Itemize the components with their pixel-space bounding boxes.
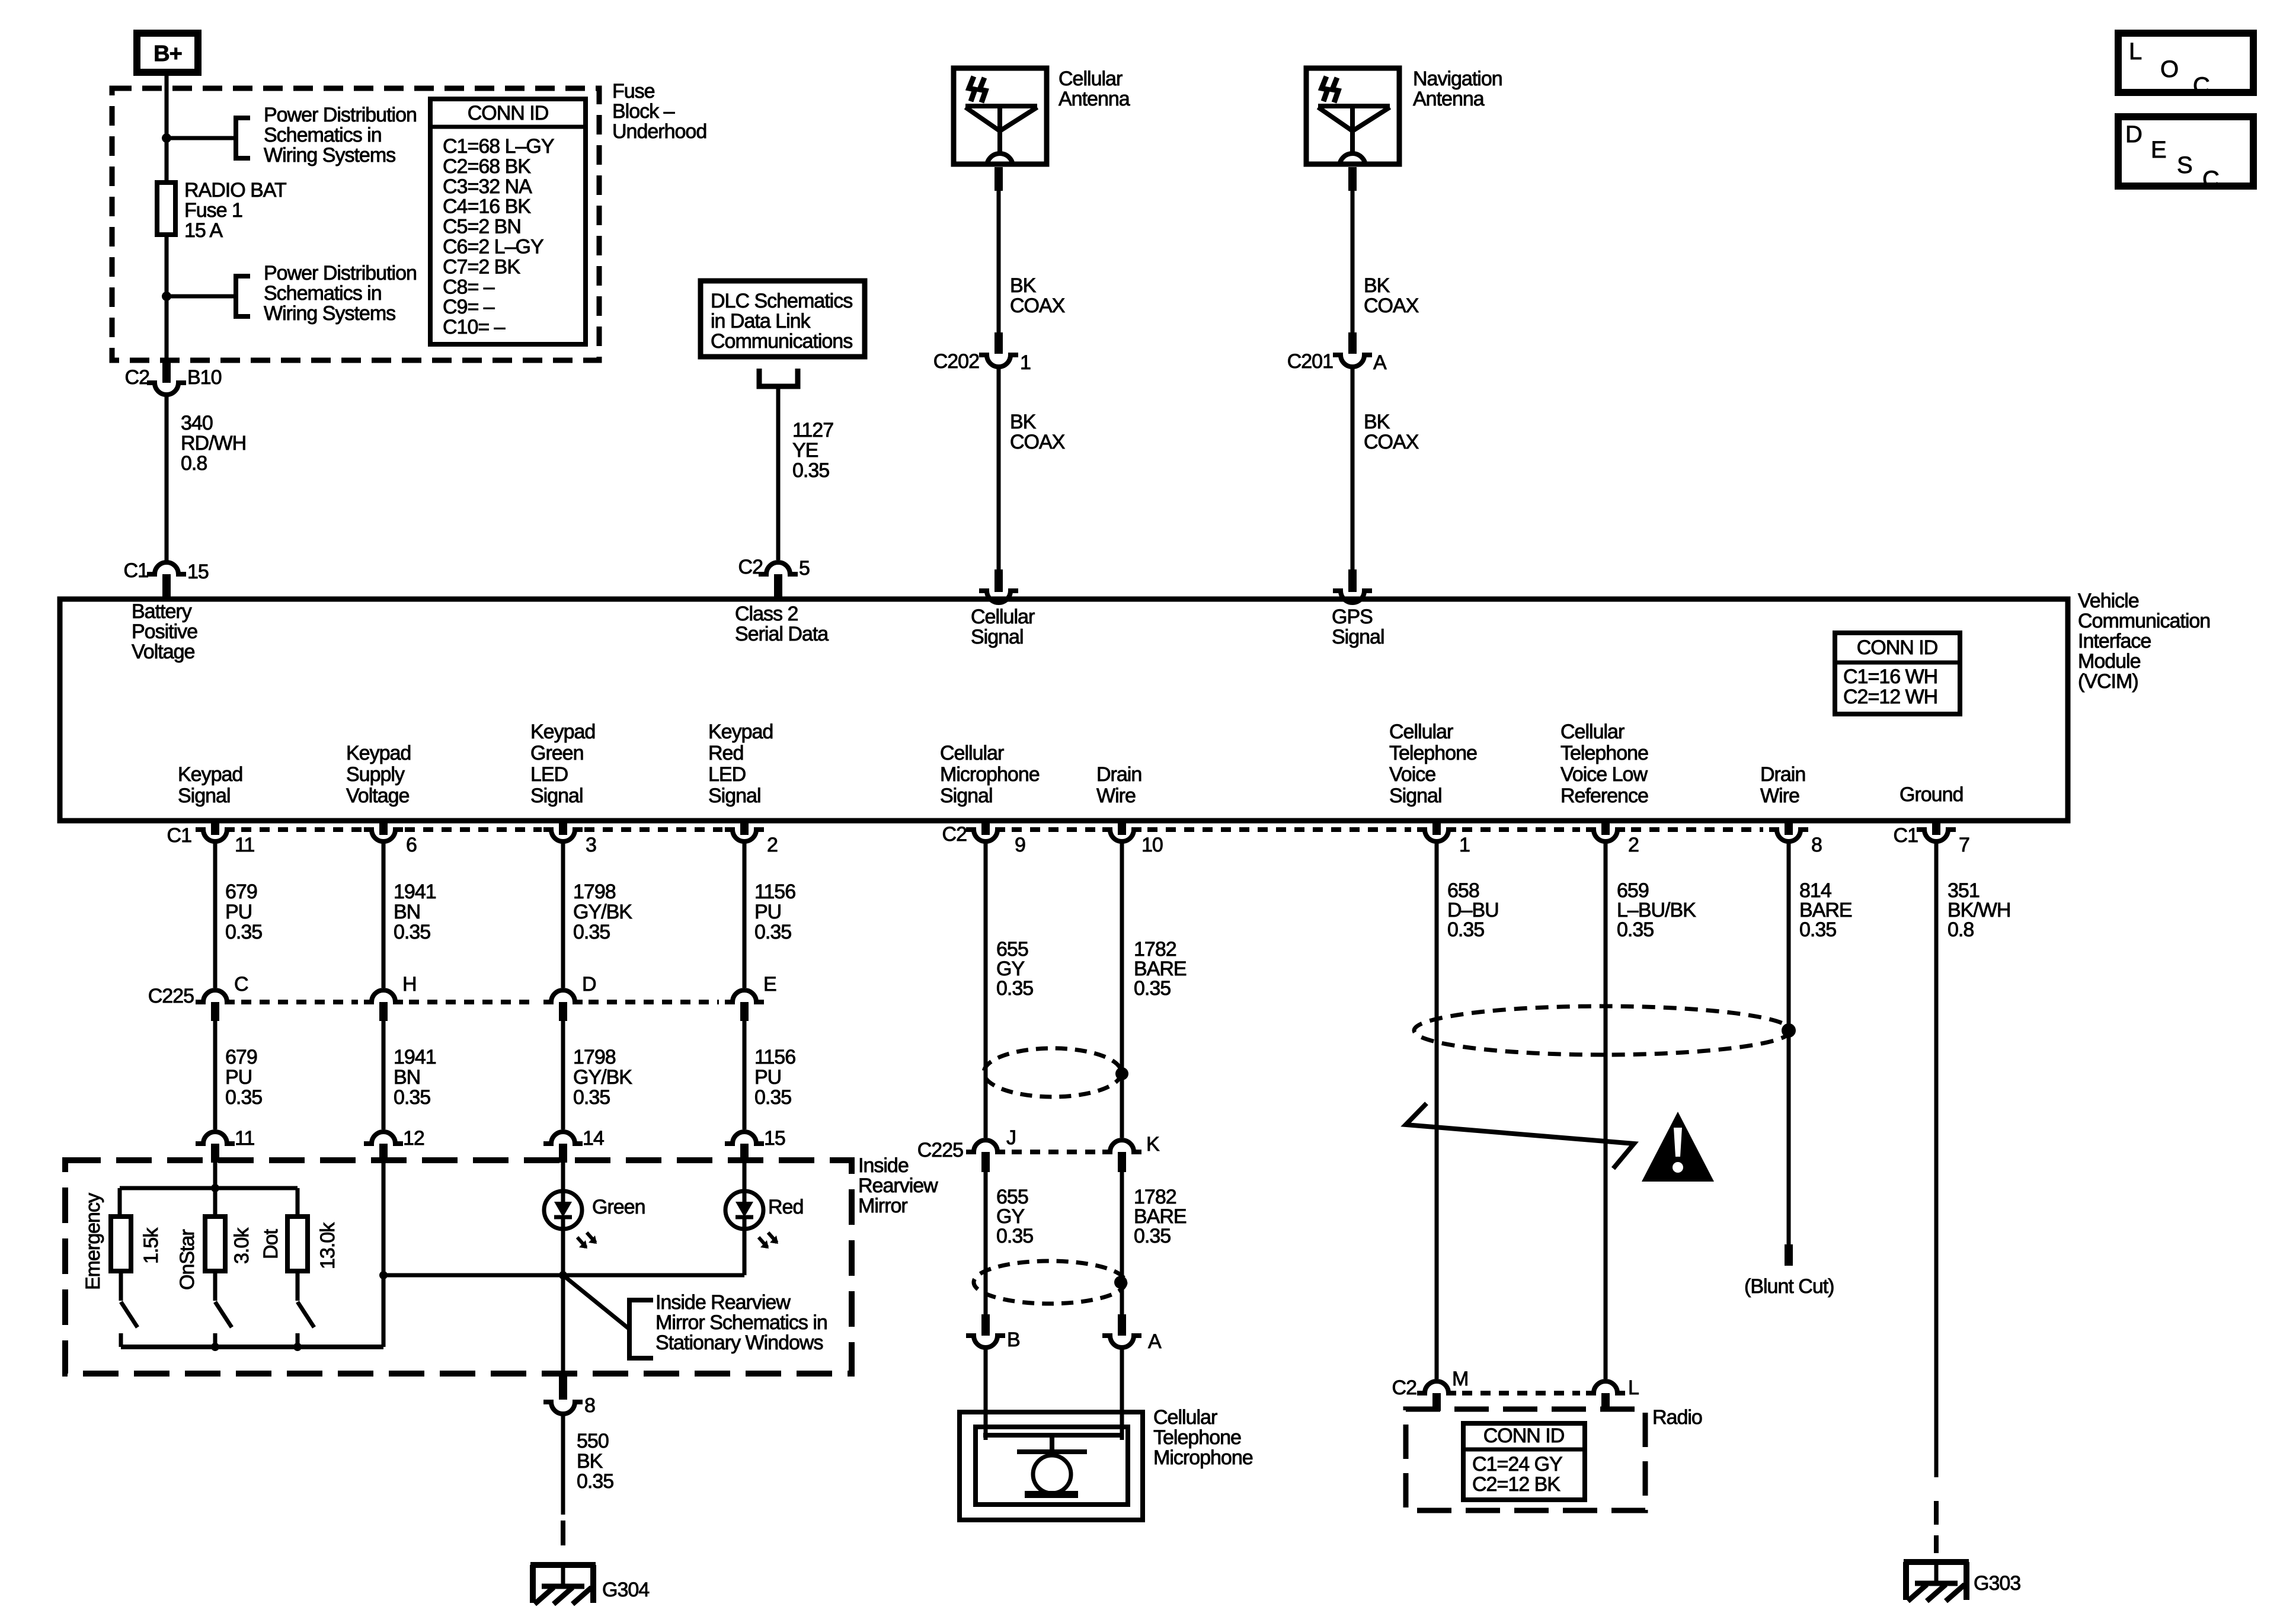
svg-text:C8= –: C8= –	[443, 276, 495, 298]
svg-text:C9= –: C9= –	[443, 296, 495, 318]
svg-text:0.35: 0.35	[1799, 918, 1836, 941]
svg-text:340: 340	[181, 412, 213, 434]
svg-text:0.35: 0.35	[1134, 1225, 1171, 1247]
svg-text:Keypad: Keypad	[708, 721, 773, 743]
svg-text:1941: 1941	[394, 881, 436, 903]
svg-text:Voice Low: Voice Low	[1560, 763, 1648, 786]
svg-text:M: M	[1452, 1368, 1468, 1390]
svg-text:BN: BN	[394, 1066, 420, 1089]
svg-text:1156: 1156	[754, 1046, 795, 1068]
svg-text:6: 6	[406, 834, 417, 856]
svg-text:0.35: 0.35	[577, 1470, 613, 1493]
svg-text:3: 3	[586, 834, 596, 856]
svg-text:C10= –: C10= –	[443, 316, 506, 338]
svg-text:Block –: Block –	[612, 100, 675, 123]
svg-text:C1: C1	[1894, 824, 1918, 847]
svg-text:0.35: 0.35	[996, 977, 1033, 1000]
svg-text:Communication: Communication	[2078, 610, 2210, 632]
svg-text:Cellular: Cellular	[1059, 68, 1123, 90]
svg-text:15: 15	[187, 561, 209, 583]
svg-text:G304: G304	[602, 1579, 649, 1601]
svg-text:C: C	[2202, 167, 2219, 193]
svg-text:1: 1	[1020, 351, 1031, 374]
svg-text:H: H	[402, 973, 417, 996]
svg-text:14: 14	[583, 1127, 604, 1150]
svg-text:Voltage: Voltage	[346, 785, 410, 807]
svg-text:Signal: Signal	[178, 785, 231, 807]
svg-text:Antenna: Antenna	[1059, 88, 1130, 110]
svg-text:Battery: Battery	[132, 600, 192, 623]
svg-text:C4=16 BK: C4=16 BK	[443, 196, 531, 218]
svg-text:G303: G303	[1974, 1572, 2020, 1595]
svg-text:PU: PU	[754, 901, 781, 923]
svg-text:(VCIM): (VCIM)	[2078, 670, 2138, 693]
svg-text:A: A	[1148, 1330, 1162, 1353]
svg-text:Red: Red	[708, 742, 743, 764]
svg-text:CONN ID: CONN ID	[1857, 636, 1938, 659]
svg-text:(Blunt Cut): (Blunt Cut)	[1744, 1275, 1834, 1298]
svg-text:PU: PU	[754, 1066, 781, 1089]
svg-text:Telephone: Telephone	[1560, 742, 1648, 764]
svg-text:Schematics in: Schematics in	[264, 282, 382, 305]
svg-text:Green: Green	[592, 1196, 645, 1218]
svg-text:Fuse 1: Fuse 1	[184, 199, 242, 222]
svg-text:Mirror Schematics in: Mirror Schematics in	[655, 1311, 827, 1334]
svg-text:Red: Red	[768, 1196, 803, 1218]
svg-text:1.5k: 1.5k	[140, 1227, 162, 1264]
svg-text:Cellular: Cellular	[1153, 1406, 1217, 1429]
svg-text:15: 15	[764, 1127, 785, 1150]
svg-text:C225: C225	[148, 985, 194, 1007]
svg-text:PU: PU	[225, 1066, 252, 1089]
svg-text:Radio: Radio	[1652, 1406, 1702, 1429]
svg-text:COAX: COAX	[1364, 431, 1419, 453]
svg-text:Telephone: Telephone	[1153, 1426, 1241, 1449]
svg-text:8: 8	[584, 1394, 595, 1417]
svg-text:E: E	[2151, 137, 2166, 163]
svg-text:0.35: 0.35	[754, 1086, 791, 1109]
svg-text:Mirror: Mirror	[858, 1195, 907, 1217]
svg-text:Fuse: Fuse	[612, 80, 655, 103]
svg-text:7: 7	[1959, 834, 1969, 856]
svg-text:2: 2	[1628, 834, 1639, 856]
svg-text:L: L	[2129, 39, 2141, 65]
svg-text:Signal: Signal	[530, 785, 583, 807]
svg-text:Cellular: Cellular	[971, 606, 1035, 628]
svg-text:in Data Link: in Data Link	[711, 310, 811, 332]
svg-text:1127: 1127	[792, 419, 833, 441]
svg-text:Voltage: Voltage	[132, 641, 195, 663]
svg-text:9: 9	[1015, 834, 1025, 856]
svg-text:D: D	[2125, 121, 2142, 148]
svg-text:B10: B10	[187, 366, 222, 389]
svg-text:PU: PU	[225, 901, 252, 923]
svg-text:Signal: Signal	[708, 785, 761, 807]
svg-text:Keypad: Keypad	[530, 721, 595, 743]
svg-text:Wiring Systems: Wiring Systems	[264, 302, 395, 325]
svg-text:5: 5	[799, 557, 810, 580]
svg-text:LED: LED	[530, 763, 568, 786]
svg-text:11: 11	[235, 834, 254, 856]
svg-text:OnStar: OnStar	[176, 1230, 199, 1290]
svg-text:C2: C2	[1392, 1377, 1417, 1399]
svg-text:C2=68 BK: C2=68 BK	[443, 155, 531, 178]
svg-text:Communications: Communications	[711, 330, 852, 353]
svg-text:B: B	[1007, 1329, 1020, 1351]
svg-text:O: O	[2160, 56, 2178, 82]
svg-text:1798: 1798	[573, 1046, 616, 1068]
svg-text:Inside Rearview: Inside Rearview	[655, 1291, 791, 1314]
svg-text:DLC Schematics: DLC Schematics	[711, 290, 852, 312]
svg-text:Inside: Inside	[858, 1154, 909, 1177]
svg-text:2: 2	[767, 834, 778, 856]
svg-text:Serial Data: Serial Data	[735, 623, 829, 645]
svg-text:Cellular: Cellular	[1389, 721, 1453, 743]
svg-text:Cellular: Cellular	[1560, 721, 1625, 743]
svg-text:COAX: COAX	[1010, 431, 1065, 453]
svg-text:C2: C2	[738, 556, 763, 578]
svg-text:C1=68 L–GY: C1=68 L–GY	[443, 135, 554, 158]
svg-text:0.35: 0.35	[1447, 918, 1484, 941]
svg-text:0.35: 0.35	[1617, 918, 1654, 941]
svg-text:Vehicle: Vehicle	[2078, 590, 2139, 612]
svg-text:11: 11	[235, 1127, 254, 1150]
svg-text:GPS: GPS	[1332, 606, 1373, 628]
svg-text:CONN ID: CONN ID	[468, 102, 549, 124]
svg-text:RADIO BAT: RADIO BAT	[184, 179, 286, 201]
svg-text:Wire: Wire	[1096, 785, 1136, 807]
svg-text:679: 679	[225, 881, 257, 903]
svg-text:Interface: Interface	[2078, 630, 2151, 652]
svg-text:BN: BN	[394, 901, 420, 923]
svg-text:BK: BK	[1010, 274, 1037, 297]
svg-text:Microphone: Microphone	[1153, 1446, 1253, 1469]
svg-text:0.8: 0.8	[1948, 918, 1974, 941]
svg-text:E: E	[763, 973, 776, 996]
svg-text:A: A	[1373, 351, 1387, 374]
svg-text:Ground: Ground	[1900, 783, 1963, 806]
svg-text:GY/BK: GY/BK	[573, 901, 632, 923]
svg-text:0.35: 0.35	[394, 1086, 430, 1109]
svg-text:BK: BK	[577, 1450, 603, 1473]
svg-text:GY/BK: GY/BK	[573, 1066, 632, 1089]
svg-text:Class 2: Class 2	[735, 603, 798, 625]
svg-text:BK: BK	[1364, 411, 1390, 433]
svg-text:LED: LED	[708, 763, 746, 786]
svg-text:BK: BK	[1010, 411, 1037, 433]
svg-text:0.8: 0.8	[181, 452, 207, 475]
svg-text:C1: C1	[124, 559, 149, 582]
svg-text:Keypad: Keypad	[178, 763, 242, 786]
svg-text:BK: BK	[1364, 274, 1390, 297]
svg-text:C2=12 WH: C2=12 WH	[1843, 686, 1937, 708]
svg-text:0.35: 0.35	[996, 1225, 1033, 1247]
svg-text:1: 1	[1459, 834, 1470, 856]
svg-text:C7=2 BK: C7=2 BK	[443, 255, 520, 278]
svg-text:13.0k: 13.0k	[316, 1222, 339, 1269]
svg-text:Antenna: Antenna	[1413, 88, 1485, 110]
svg-text:Signal: Signal	[1389, 785, 1442, 807]
svg-text:Emergency: Emergency	[82, 1193, 104, 1290]
svg-text:12: 12	[403, 1127, 424, 1150]
svg-text:0.35: 0.35	[573, 1086, 610, 1109]
svg-text:Supply: Supply	[346, 763, 405, 786]
svg-text:Power Distribution: Power Distribution	[264, 262, 417, 284]
svg-text:C3=32 NA: C3=32 NA	[443, 175, 532, 198]
svg-text:Drain: Drain	[1096, 763, 1141, 786]
svg-text:0.35: 0.35	[1134, 977, 1171, 1000]
svg-text:Green: Green	[530, 742, 584, 764]
svg-text:Voice: Voice	[1389, 763, 1435, 786]
svg-text:0.35: 0.35	[573, 921, 610, 943]
svg-text:0.35: 0.35	[394, 921, 430, 943]
svg-text:Signal: Signal	[1332, 626, 1384, 648]
svg-text:Navigation: Navigation	[1413, 68, 1502, 90]
svg-text:C1: C1	[167, 824, 192, 847]
svg-text:C2: C2	[942, 823, 967, 846]
svg-text:J: J	[1006, 1126, 1016, 1149]
svg-text:Stationary Windows: Stationary Windows	[655, 1331, 823, 1354]
svg-text:YE: YE	[792, 439, 818, 462]
svg-text:Signal: Signal	[971, 626, 1024, 648]
svg-text:8: 8	[1811, 834, 1822, 856]
svg-text:C6=2 L–GY: C6=2 L–GY	[443, 236, 543, 258]
svg-text:0.35: 0.35	[225, 1086, 262, 1109]
svg-text:3.0k: 3.0k	[231, 1227, 253, 1264]
svg-text:C: C	[234, 973, 248, 996]
svg-text:Telephone: Telephone	[1389, 742, 1477, 764]
svg-text:0.35: 0.35	[754, 921, 791, 943]
svg-text:Signal: Signal	[940, 785, 993, 807]
svg-text:C2=12 BK: C2=12 BK	[1472, 1473, 1560, 1496]
svg-text:Dot: Dot	[260, 1229, 282, 1259]
svg-text:B+: B+	[154, 41, 182, 66]
svg-text:Schematics in: Schematics in	[264, 124, 382, 146]
svg-text:Reference: Reference	[1560, 785, 1648, 807]
svg-text:1798: 1798	[573, 881, 616, 903]
svg-text:0.35: 0.35	[792, 459, 829, 482]
svg-text:C5=2 BN: C5=2 BN	[443, 216, 521, 238]
svg-text:C1=16 WH: C1=16 WH	[1843, 665, 1937, 688]
svg-text:15 A: 15 A	[184, 219, 223, 242]
svg-text:C: C	[2193, 73, 2209, 99]
svg-text:679: 679	[225, 1046, 257, 1068]
svg-text:Drain: Drain	[1760, 763, 1805, 786]
svg-text:10: 10	[1141, 834, 1163, 856]
svg-text:C1=24 GY: C1=24 GY	[1472, 1453, 1562, 1475]
svg-text:C225: C225	[917, 1139, 963, 1161]
svg-text:1941: 1941	[394, 1046, 436, 1068]
svg-text:K: K	[1146, 1133, 1160, 1156]
svg-text:Wire: Wire	[1760, 785, 1799, 807]
svg-text:1156: 1156	[754, 881, 795, 903]
svg-text:Keypad: Keypad	[346, 742, 411, 764]
svg-text:L: L	[1628, 1377, 1639, 1399]
svg-text:Microphone: Microphone	[940, 763, 1040, 786]
svg-text:Wiring Systems: Wiring Systems	[264, 144, 395, 167]
svg-text:Power Distribution: Power Distribution	[264, 104, 417, 126]
svg-text:D: D	[582, 973, 596, 996]
svg-text:Rearview: Rearview	[858, 1174, 938, 1197]
svg-text:COAX: COAX	[1010, 295, 1065, 317]
svg-text:C201: C201	[1287, 350, 1333, 373]
svg-text:RD/WH: RD/WH	[181, 432, 246, 454]
svg-text:Underhood: Underhood	[612, 120, 706, 143]
svg-text:0.35: 0.35	[225, 921, 262, 943]
svg-text:C2: C2	[125, 366, 150, 389]
svg-text:COAX: COAX	[1364, 295, 1419, 317]
svg-text:S: S	[2177, 152, 2192, 178]
svg-text:Cellular: Cellular	[940, 742, 1004, 764]
svg-text:550: 550	[577, 1430, 609, 1452]
svg-text:CONN ID: CONN ID	[1483, 1425, 1565, 1447]
svg-text:Positive: Positive	[132, 620, 197, 643]
svg-text:Module: Module	[2078, 650, 2141, 673]
svg-text:C202: C202	[933, 350, 979, 373]
